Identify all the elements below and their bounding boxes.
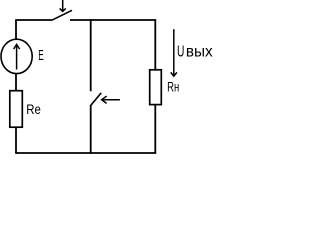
svg-text:Re: Re	[26, 101, 41, 117]
wire top-left segment	[16, 19, 52, 21]
wire source to Re	[15, 74, 17, 91]
resistor Rн	[150, 70, 162, 105]
wire Re to bottom	[15, 127, 17, 153]
wire middle branch upper	[90, 19, 92, 91]
wire right branch upper	[154, 19, 156, 70]
svg-text:вых: вых	[186, 44, 213, 61]
resistor Re	[10, 91, 22, 128]
wire bottom rail	[15, 152, 156, 154]
arrow Uвых	[171, 29, 177, 76]
svg-text:U: U	[177, 44, 184, 61]
switch S1 blade	[52, 10, 72, 20]
wire left rail top	[15, 19, 17, 39]
wire top-right segment	[70, 19, 155, 21]
svg-text:Rн: Rн	[167, 79, 179, 95]
switch S2 blade	[91, 93, 101, 105]
current source E arrow	[14, 44, 20, 69]
wire Rн to bottom	[154, 105, 156, 153]
wire middle branch lower	[90, 105, 92, 153]
switch S2 actuation arrow	[102, 96, 120, 103]
current source E circle	[1, 39, 32, 73]
svg-text:E: E	[38, 48, 44, 64]
switch S1 actuation arrow	[60, 0, 66, 11]
